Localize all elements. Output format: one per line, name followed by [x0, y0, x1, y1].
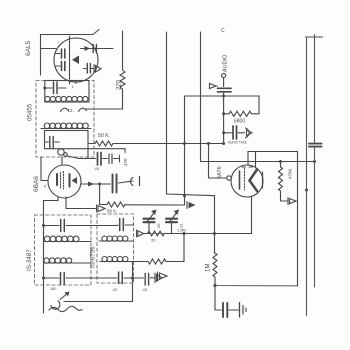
tube 6BA6 V2 [48, 165, 81, 198]
svg-text:50 K: 50 K [98, 133, 109, 139]
6AL5 internal diode plates [69, 36, 71, 84]
6AT6 top pins [248, 152, 298, 166]
plate resistor 470K [280, 162, 282, 168]
wire 1M to bus [215, 285, 298, 287]
wire y161 to bus [201, 161, 315, 163]
plug arrow [246, 128, 250, 138]
external cap + ground [144, 274, 146, 286]
svg-text:470: 470 [123, 158, 128, 166]
svg-text:6BA6: 6BA6 [33, 176, 40, 192]
svg-text:.05: .05 [156, 223, 161, 229]
6AT6 cathode down [251, 197, 253, 234]
right bus lines [306, 36, 323, 38]
svg-text:6AL5: 6AL5 [25, 40, 32, 56]
wire left drop [40, 35, 42, 76]
resistor 220 branch [122, 31, 124, 70]
wire top rail [41, 30, 100, 35]
canR top capacitor [119, 219, 121, 231]
canR bottom capacitor [118, 272, 120, 284]
bus capacitor [309, 143, 322, 145]
resistor 50K line [88, 143, 95, 145]
canL bottom capacitor [44, 277, 60, 279]
svg-text:2K: 2K [151, 238, 156, 243]
capacitor below tube right [84, 68, 87, 70]
svg-text:6800: 6800 [234, 119, 245, 125]
antenna squiggle [51, 301, 60, 309]
svg-text:12.: 12. [68, 108, 74, 113]
capacitor C-B in can [45, 141, 49, 143]
ground symbol [239, 303, 241, 318]
svg-text:05455: 05455 [27, 103, 34, 121]
canL top capacitor [44, 225, 60, 227]
detector capacitor 2 [171, 222, 173, 234]
can B bottom edge extension [88, 148, 125, 150]
svg-text:AUDIO: AUDIO [223, 54, 229, 72]
wire stub to tube pin 7 [41, 48, 57, 50]
canL coil 1 [44, 236, 50, 242]
plug symbol [131, 178, 133, 186]
svg-text:56 K: 56 K [107, 209, 116, 214]
IF can IS-3487 dashed [35, 215, 92, 285]
resistor 220 [120, 70, 125, 89]
AVC branch corner [155, 144, 185, 206]
tube 6AT6 V3 [231, 165, 263, 197]
grid branch 6AT6 [209, 144, 227, 179]
svg-text:470K: 470K [288, 168, 293, 179]
wire coil2 to volume [100, 261, 147, 263]
6BA6 cathode pin down-left [44, 197, 59, 313]
capacitor .02 plate bypass [100, 183, 111, 185]
bottom capacitor to ground [215, 286, 221, 311]
svg-text:.05: .05 [142, 288, 147, 292]
wire audio node down [223, 96, 225, 144]
svg-text:.05: .05 [94, 167, 99, 171]
ground arrow near 6AL5 [93, 65, 95, 73]
svg-text:.01: .01 [179, 223, 184, 229]
svg-text:6AT6: 6AT6 [217, 166, 223, 179]
6BA6 plate wire with arrow [81, 183, 100, 185]
wire antenna to canR [64, 301, 133, 303]
B+ corner branch [297, 152, 299, 287]
resistor 56K cathode [100, 204, 107, 206]
tube 6AL5 V1 [54, 38, 98, 82]
6BA6 grid cap curl [58, 149, 64, 155]
coil B bumps [44, 123, 50, 129]
6BA6 heater pin with arrow [66, 197, 96, 209]
6BA6 internals [56, 174, 58, 185]
capacitor .02 audio takeoff [224, 132, 232, 134]
svg-text:AUDIO TAKE: AUDIO TAKE [228, 141, 247, 145]
ground arrow left [210, 84, 217, 89]
6BA6 left lead [41, 157, 48, 181]
IF can lower box [45, 131, 89, 149]
long wire 50K to audio node [113, 143, 224, 145]
svg-text:IS-3487: IS-3487 [26, 249, 33, 271]
resistor 1M [213, 253, 217, 277]
capacitor C-A in can [45, 87, 52, 89]
6AT6 internals [239, 171, 241, 189]
canR coil 1 [102, 236, 107, 241]
canR coil 2 [102, 257, 107, 262]
volume control branch [183, 234, 185, 262]
wire grid cap to .02 cap [68, 156, 89, 159]
6AL5 internal cathode arrow [72, 56, 79, 65]
pin 12 bracket [61, 108, 69, 111]
svg-text:.02: .02 [112, 288, 117, 292]
long vertical wire x166 [167, 32, 215, 253]
wire to IF pin 12 [86, 108, 123, 110]
detector line y233 [143, 233, 252, 235]
IF can IS-6756 dashed [97, 214, 134, 283]
svg-text:220: 220 [117, 79, 123, 90]
coil A bumps [45, 96, 50, 101]
long vertical wire x200 [200, 32, 202, 162]
arrow at AVC corner [186, 202, 188, 209]
svg-text:180: 180 [50, 287, 56, 291]
capacitor small second [108, 154, 110, 164]
loop rectangle audio feedback [185, 96, 260, 114]
svg-text:IS-6756: IS-6756 [90, 246, 97, 268]
canL coil 2 [44, 258, 49, 263]
audio coupling capacitor [218, 87, 232, 89]
capacitor .02 grid cluster [87, 149, 89, 159]
tube pin stub down [75, 81, 77, 84]
wire plate right with arrow [81, 48, 114, 50]
IF transformer can 05455 dashed outline [36, 81, 94, 158]
resistor on detector line [148, 231, 165, 236]
pot wiper arrow [157, 272, 159, 280]
resistor 6800 [224, 113, 229, 115]
ground arrow at left of line [136, 230, 138, 237]
svg-text:C: C [221, 28, 225, 34]
detector capacitor 1 [148, 222, 150, 234]
IF can upper box [45, 81, 89, 103]
svg-text:1M: 1M [206, 264, 212, 272]
